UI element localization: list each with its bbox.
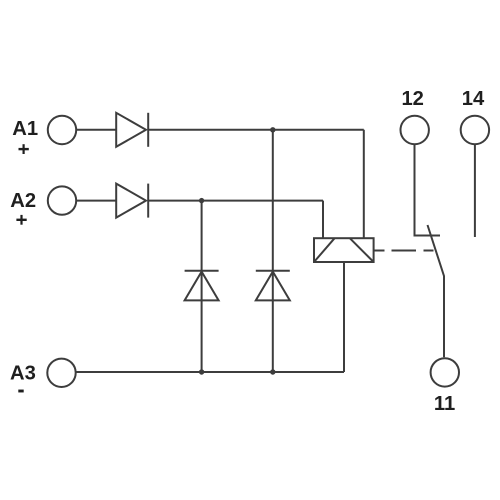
junction bottom rail right bbox=[270, 369, 275, 374]
svg-text:12: 12 bbox=[401, 88, 423, 110]
wire coil bottom pin bbox=[343, 262, 345, 372]
wire A2 to diode bbox=[76, 200, 116, 202]
junction on A2 line bbox=[199, 198, 204, 203]
wire contact 14 bbox=[474, 145, 476, 237]
diode on A1 line bbox=[116, 113, 148, 147]
polarity plus A1 bbox=[19, 144, 29, 154]
switch blade bbox=[428, 225, 445, 357]
terminal A2 bbox=[48, 186, 76, 214]
wire contact 12 with fixed contact bend bbox=[415, 145, 441, 236]
svg-text:14: 14 bbox=[462, 88, 485, 110]
wire A1 line to right corner bbox=[148, 129, 364, 131]
wire A2 corner down to coil pin bbox=[322, 201, 324, 239]
wire left suppressor branch vertical bbox=[201, 201, 203, 372]
wire bottom rail bbox=[76, 371, 344, 373]
terminal 12 bbox=[401, 116, 429, 144]
svg-text:A3: A3 bbox=[10, 363, 36, 385]
wire right suppressor branch vertical bbox=[272, 130, 274, 372]
wire A1 to diode bbox=[76, 129, 116, 131]
junction bottom rail left bbox=[199, 369, 204, 374]
svg-text:A1: A1 bbox=[12, 118, 38, 140]
terminal A3 bbox=[47, 359, 75, 387]
suppressor diode right bbox=[256, 271, 290, 301]
polarity plus A2 bbox=[16, 215, 26, 225]
svg-text:A2: A2 bbox=[10, 190, 36, 212]
wire A1 corner down to coil pin bbox=[363, 130, 365, 238]
suppressor diode left bbox=[185, 271, 219, 301]
terminal 14 bbox=[461, 116, 489, 144]
junction on A1 line bbox=[270, 127, 275, 132]
relay coil K1 bbox=[314, 238, 374, 262]
wire A2 line to right corner bbox=[148, 200, 323, 202]
diode on A2 line bbox=[116, 184, 148, 218]
svg-text:11: 11 bbox=[434, 393, 455, 415]
terminal A1 bbox=[48, 116, 76, 144]
mechanical link dashed bbox=[374, 250, 434, 252]
polarity minus A3 bbox=[18, 390, 23, 393]
terminal 11 bbox=[431, 358, 459, 386]
